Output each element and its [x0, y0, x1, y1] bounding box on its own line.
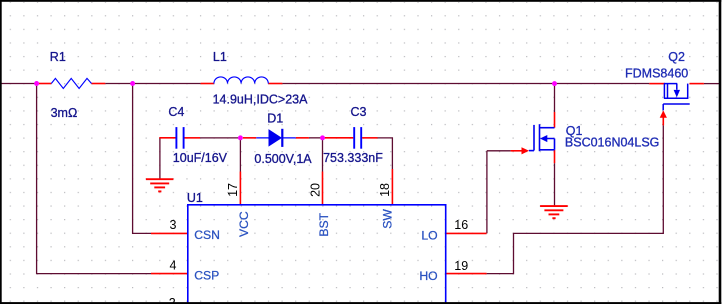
- wire D1 to BST node: [309, 137, 323, 139]
- svg-text:3: 3: [170, 218, 177, 232]
- svg-text:753.333nF: 753.333nF: [323, 151, 383, 165]
- wire red R1 leads: [38, 83, 52, 85]
- svg-text:R1: R1: [50, 50, 66, 64]
- svg-text:HO: HO: [419, 269, 437, 283]
- wire red L1 leads: [201, 83, 214, 85]
- wire left drop from R1 right node to CSN: [133, 84, 151, 234]
- svg-text:L1: L1: [213, 50, 227, 64]
- op IC U1 box: [188, 205, 446, 304]
- svg-text:14.9uH,IDC>23A: 14.9uH,IDC>23A: [213, 93, 309, 107]
- svg-text:C3: C3: [351, 105, 367, 119]
- svg-text:FDMS8460: FDMS8460: [625, 66, 688, 80]
- wire left drop from R1 left node to CSP: [37, 84, 151, 274]
- pin 4 CSP stub: [151, 273, 188, 275]
- wire VCC stub upper: [239, 138, 241, 172]
- wire main top rail y=83.5: [2, 83, 720, 85]
- node R1 right: [130, 81, 135, 86]
- svg-text:4: 4: [170, 258, 177, 272]
- pin 20 BST stub: [322, 172, 324, 205]
- pin 3 CSN stub: [151, 232, 188, 234]
- node VCC/C4/D1: [238, 135, 243, 140]
- wire C4 branch down to ground: [159, 138, 161, 179]
- svg-text:20: 20: [309, 183, 323, 197]
- svg-text:BST: BST: [317, 212, 331, 236]
- node BST/D1/C3: [320, 135, 325, 140]
- wire HO to Q2 gate: [487, 125, 664, 273]
- wire red Q1 drain pin: [554, 112, 556, 128]
- svg-text:10uF/16V: 10uF/16V: [173, 151, 228, 165]
- transistor Q1: [529, 124, 555, 151]
- node Q1 drain on rail: [552, 81, 557, 86]
- svg-text:16: 16: [454, 218, 468, 232]
- junction node dots: [34, 81, 557, 140]
- svg-text:BSC016N04LSG: BSC016N04LSG: [565, 136, 660, 150]
- wire red C4 leads: [159, 137, 175, 139]
- svg-text:LO: LO: [421, 228, 437, 242]
- svg-text:VCC: VCC: [237, 211, 251, 237]
- pin 19 HO stub: [446, 273, 487, 275]
- red wire highlight segments: [38, 84, 704, 274]
- svg-text:17: 17: [226, 183, 240, 197]
- ground under Q1: [540, 206, 568, 218]
- diode D1: [256, 129, 296, 147]
- wire LO to Q1 gate: [487, 151, 511, 234]
- pin 16 LO stub: [446, 232, 487, 234]
- capacitor C4: [176, 127, 183, 149]
- svg-text:18: 18: [378, 183, 392, 197]
- svg-text:U1: U1: [187, 191, 203, 205]
- svg-text:3mΩ: 3mΩ: [51, 106, 78, 120]
- transistor Q2: [663, 84, 690, 111]
- wire C4 branch horizontal to VCC node: [200, 137, 238, 139]
- wire red C3 leads: [325, 137, 354, 139]
- wire Q1 source to ground: [554, 163, 556, 206]
- wire Q1 drain to rail: [554, 84, 556, 112]
- pin 18 SW stub: [391, 169, 393, 205]
- svg-text:0.500V,1A: 0.500V,1A: [254, 152, 312, 166]
- wire red Q2 gate lead segment: [662, 117, 664, 126]
- wire BST stub upper: [322, 138, 324, 172]
- wire red Q1 gate lead segment: [511, 150, 522, 152]
- resistor R1: [51, 78, 91, 88]
- inductor L1: [214, 77, 268, 84]
- svg-text:CSP: CSP: [194, 269, 219, 283]
- ground under C4: [146, 179, 174, 191]
- wire red Q2 drain/source leads on rail: [649, 83, 665, 85]
- svg-text:D1: D1: [267, 111, 283, 125]
- svg-text:Q2: Q2: [668, 50, 685, 64]
- wire red D1 leads: [243, 137, 256, 139]
- wire C3 to SW pin: [378, 138, 393, 169]
- svg-text:C4: C4: [168, 105, 184, 119]
- arrow into Q2 gate: [660, 110, 667, 117]
- svg-text:SW: SW: [381, 209, 395, 229]
- svg-text:19: 19: [454, 259, 468, 273]
- wire red Q1 source pin: [554, 150, 556, 163]
- svg-text:CSN: CSN: [194, 228, 220, 242]
- arrow into Q1 gate: [522, 147, 530, 154]
- node R1 left: [34, 81, 39, 86]
- capacitor C3: [354, 127, 361, 149]
- pin 17 VCC stub: [239, 172, 241, 205]
